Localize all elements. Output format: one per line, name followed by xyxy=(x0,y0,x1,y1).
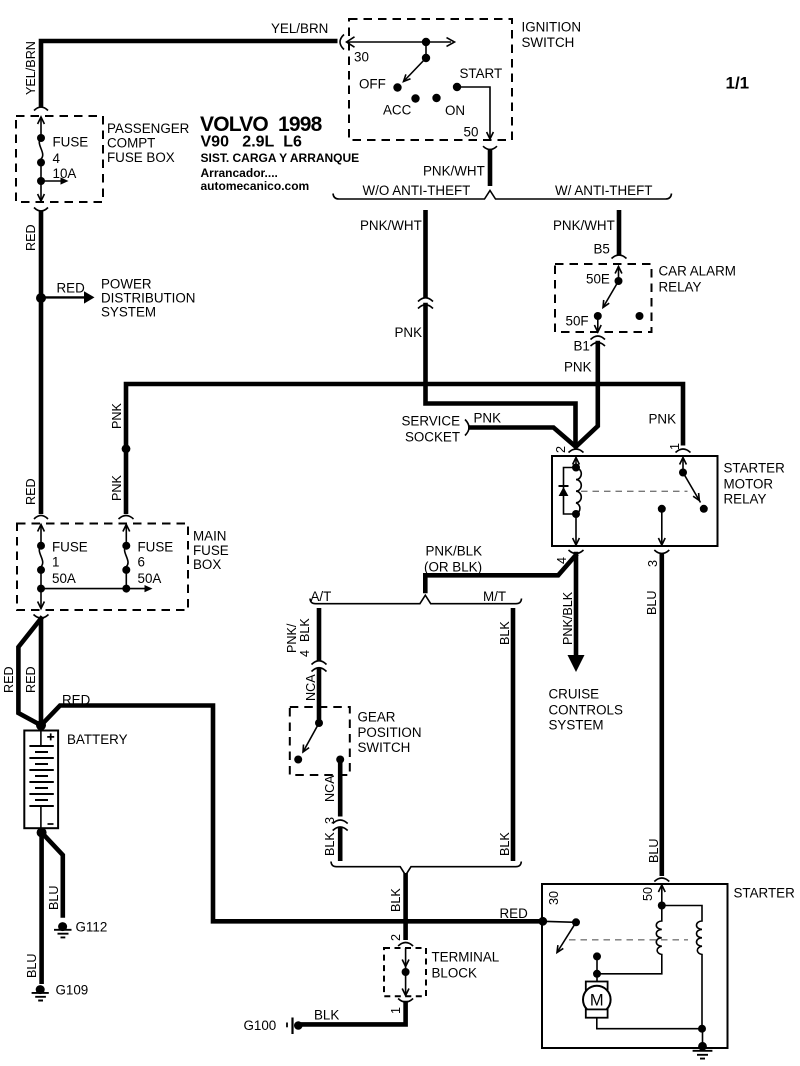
fuse 6 lower junction xyxy=(125,570,127,589)
switch arm pivot dot xyxy=(422,54,430,62)
starter switch arm xyxy=(557,922,576,952)
ground junction dot on box edge xyxy=(698,1042,707,1051)
wire RED straight to battery positive xyxy=(39,619,44,726)
svg-text:4: 4 xyxy=(298,650,312,657)
hold-in coil L2 xyxy=(662,906,702,1029)
svg-text:SOCKET: SOCKET xyxy=(405,430,460,445)
main fuse box xyxy=(17,524,188,611)
svg-text:PNK/WHT: PNK/WHT xyxy=(423,164,485,179)
svg-text:4: 4 xyxy=(53,151,61,166)
svg-text:ACC: ACC xyxy=(383,103,412,118)
ground G112 xyxy=(54,922,72,937)
fuse 4 entry arrow xyxy=(40,117,42,138)
splice dot on PNK bus xyxy=(122,444,131,453)
relay contact arm xyxy=(683,473,701,503)
svg-text:STARTER: STARTER xyxy=(724,461,786,476)
svg-text:SYSTEM: SYSTEM xyxy=(549,718,604,733)
svg-text:PNK: PNK xyxy=(110,403,124,429)
pull-in coil L1 xyxy=(597,906,662,974)
svg-text:RED: RED xyxy=(24,666,38,693)
node junction on terminal 30 line xyxy=(422,38,430,46)
junction dot 50 xyxy=(658,902,666,910)
svg-text:10A: 10A xyxy=(53,166,77,181)
battery xyxy=(24,731,58,833)
inline connector break on left branch xyxy=(418,298,433,309)
motor return wire xyxy=(597,1018,702,1029)
connector into ignition switch terminal 30 xyxy=(340,35,455,50)
svg-text:W/O ANTI-THEFT: W/O ANTI-THEFT xyxy=(363,183,471,198)
svg-text:2: 2 xyxy=(389,934,403,941)
fuse F4 xyxy=(37,134,45,142)
wire to starter ground xyxy=(701,1029,704,1048)
contact 50E dot xyxy=(615,277,623,285)
svg-text:CONTROLS: CONTROLS xyxy=(549,703,623,718)
svg-text:Arrancador....: Arrancador.... xyxy=(201,166,278,180)
wire BLK down to terminal block xyxy=(403,873,408,940)
svg-text:3: 3 xyxy=(323,817,337,824)
connector below passenger fuse box xyxy=(34,208,48,212)
connector starter 50 xyxy=(654,878,669,882)
connector B1 xyxy=(591,336,606,346)
diode D1 xyxy=(559,485,569,487)
svg-text:CAR ALARM: CAR ALARM xyxy=(659,264,736,279)
connector into main fuse box right xyxy=(119,516,134,520)
svg-text:RED: RED xyxy=(57,281,86,296)
return junction dot xyxy=(698,1025,706,1033)
bus arrow inside main fuse box xyxy=(41,588,145,590)
svg-text:PNK: PNK xyxy=(564,360,592,375)
svg-text:YEL/BRN: YEL/BRN xyxy=(271,21,328,36)
contact 50F dot xyxy=(594,312,602,320)
svg-text:NCA: NCA xyxy=(323,775,337,802)
svg-text:SIST. CARGA Y ARRANQUE: SIST. CARGA Y ARRANQUE xyxy=(201,151,360,165)
svg-text:W/ ANTI-THEFT: W/ ANTI-THEFT xyxy=(555,183,652,198)
svg-text:G112: G112 xyxy=(76,920,108,935)
fuse box exit arrow xyxy=(40,181,42,201)
svg-text:COMPT: COMPT xyxy=(107,136,155,151)
svg-text:PNK/BLK: PNK/BLK xyxy=(426,544,483,559)
car alarm relay box xyxy=(555,264,652,332)
connector terminal block pin 2 xyxy=(398,943,413,947)
svg-text:(OR BLK): (OR BLK) xyxy=(424,560,482,575)
contact to motor link xyxy=(596,956,598,981)
svg-text:50E: 50E xyxy=(586,272,610,287)
relay pin 4 exit arrow xyxy=(575,514,577,545)
svg-text:30: 30 xyxy=(354,50,369,65)
svg-text:FUSE: FUSE xyxy=(52,540,88,555)
relay arm 50E to 50F xyxy=(603,281,619,308)
svg-text:3: 3 xyxy=(646,560,660,567)
terminal 50E arrow xyxy=(618,266,620,281)
gear switch pivot dot xyxy=(315,719,323,727)
svg-text:PNK: PNK xyxy=(649,412,677,427)
starter motor relay box xyxy=(552,456,718,546)
svg-text:PNK/WHT: PNK/WHT xyxy=(360,218,422,233)
gear switch contact dot right xyxy=(336,756,344,764)
svg-text:FUSE: FUSE xyxy=(193,543,229,558)
splice node to power distribution xyxy=(36,293,46,303)
svg-text:PNK/BLK: PNK/BLK xyxy=(561,591,575,645)
wire RED double run to battery positive xyxy=(18,619,41,726)
wire BLU to G109 xyxy=(39,833,44,985)
contact ON xyxy=(432,94,440,102)
svg-text:RED: RED xyxy=(500,906,529,921)
fuse F6 xyxy=(122,542,130,550)
fuse 1 lower junction xyxy=(40,570,42,589)
svg-text:ON: ON xyxy=(445,103,465,118)
wire A/T into gear switch xyxy=(317,668,322,722)
svg-text:2: 2 xyxy=(554,446,568,453)
connector relay pin 2 xyxy=(569,449,584,453)
svg-text:RELAY: RELAY xyxy=(724,492,767,507)
relay coil xyxy=(576,468,581,514)
diode bracket across coil xyxy=(564,468,577,515)
connector below ignition terminal 50 xyxy=(483,146,497,149)
svg-text:PNK: PNK xyxy=(395,325,423,340)
svg-text:M: M xyxy=(590,992,604,1010)
connector terminal block pin 1 xyxy=(398,999,413,1003)
ignition switch box xyxy=(349,19,512,140)
svg-text:BLU: BLU xyxy=(645,591,659,616)
terminal block box xyxy=(384,948,426,996)
spare contact dot xyxy=(636,312,644,320)
svg-text:BLK: BLK xyxy=(298,618,312,642)
svg-text:RELAY: RELAY xyxy=(659,280,702,295)
inline connector A/T branch xyxy=(312,661,327,672)
connector service socket xyxy=(465,420,469,436)
terminal B1 exit arrow xyxy=(597,316,599,331)
cruise controls arrow head xyxy=(568,655,585,672)
svg-text:1/1: 1/1 xyxy=(726,74,750,93)
svg-text:BLK: BLK xyxy=(498,832,512,856)
svg-text:MOTOR: MOTOR xyxy=(724,477,774,492)
wire START to terminal 50 xyxy=(457,87,490,138)
svg-text:1: 1 xyxy=(668,443,682,450)
svg-text:RED: RED xyxy=(62,693,91,708)
fuse F1 xyxy=(37,542,45,550)
svg-text:BATTERY: BATTERY xyxy=(67,732,128,747)
starter box xyxy=(542,884,728,1048)
wire from gear switch down xyxy=(338,761,343,817)
ground starter xyxy=(693,1048,713,1059)
contact ACC xyxy=(411,94,419,102)
svg-text:RED: RED xyxy=(24,478,38,505)
svg-text:BLU: BLU xyxy=(25,954,39,979)
svg-text:PNK/WHT: PNK/WHT xyxy=(553,218,615,233)
relay coil bottom dot xyxy=(572,510,580,518)
branch arrow right xyxy=(41,180,61,182)
svg-text:6: 6 xyxy=(138,555,145,570)
relay pin 2 entry arrow xyxy=(575,458,577,468)
wire B1 PNK down to relay pin 2 xyxy=(577,343,598,446)
battery positive junction xyxy=(36,720,46,730)
wire RED battery to starter 30 xyxy=(41,706,540,922)
relay coil top dot xyxy=(572,464,580,472)
svg-text:TERMINAL: TERMINAL xyxy=(432,950,500,965)
wire RED from passenger fuse box to main fuse box xyxy=(39,212,44,515)
wire stub to switch arm pivot xyxy=(425,42,427,58)
svg-text:RED: RED xyxy=(2,666,16,693)
svg-text:B5: B5 xyxy=(594,242,610,257)
svg-text:BLK: BLK xyxy=(498,621,512,645)
wire BLU relay pin 3 to starter 50 xyxy=(659,554,664,876)
starter switch line from 30 xyxy=(543,921,576,922)
svg-text:OFF: OFF xyxy=(359,77,386,92)
starter contact dot upper xyxy=(593,952,601,960)
svg-text:SYSTEM: SYSTEM xyxy=(101,305,156,320)
wire M/T branch xyxy=(511,608,516,861)
fuse 6 entry arrow xyxy=(125,525,127,546)
svg-text:SERVICE: SERVICE xyxy=(401,414,460,429)
svg-text:SWITCH: SWITCH xyxy=(358,740,411,755)
svg-text:1: 1 xyxy=(389,1007,403,1014)
starter actuation dashed line xyxy=(569,939,688,941)
svg-text:BOX: BOX xyxy=(193,557,221,572)
svg-text:YEL/BRN: YEL/BRN xyxy=(24,41,38,95)
connector B5 into car alarm relay xyxy=(612,255,627,259)
connector relay pin 1 xyxy=(676,449,691,453)
contact START xyxy=(453,83,461,91)
svg-text:FUSE: FUSE xyxy=(53,135,89,150)
relay pin 1 entry arrow xyxy=(682,458,684,473)
junction dot 30 at box edge xyxy=(538,917,547,926)
svg-text:50A: 50A xyxy=(138,571,162,586)
svg-text:50A: 50A xyxy=(52,571,76,586)
wire pin 4 branch to A/T M/T brace xyxy=(425,556,575,592)
connector below main fuse box xyxy=(34,615,49,619)
wire BLK from terminal block to G100 xyxy=(303,1003,406,1024)
wire service socket to relay pin 2 xyxy=(471,428,576,447)
main fuse box exit arrow xyxy=(40,589,42,608)
svg-text:PNK: PNK xyxy=(110,475,124,501)
svg-text:RED: RED xyxy=(24,224,38,251)
gear switch contact dot left xyxy=(294,756,302,764)
svg-text:CRUISE: CRUISE xyxy=(549,687,600,702)
connector relay pin 3 xyxy=(654,550,669,554)
svg-text:FUSE: FUSE xyxy=(138,540,174,555)
brace splitting W/O and W/ anti-theft xyxy=(333,191,672,200)
connector into main fuse box left xyxy=(34,516,48,520)
terminal block dot xyxy=(402,968,410,976)
wire right branch PNK/WHT xyxy=(617,210,622,255)
svg-text:A/T: A/T xyxy=(311,589,332,604)
svg-text:PNK: PNK xyxy=(474,411,502,426)
fuse 4 output junction xyxy=(40,163,42,182)
fuse 1 entry arrow xyxy=(40,525,42,546)
svg-text:B1: B1 xyxy=(574,339,590,354)
wire PNK/WHT from ignition 50 xyxy=(488,149,493,186)
svg-text:BLU: BLU xyxy=(47,886,61,911)
wire BLU to G112 xyxy=(42,833,63,916)
brace joining A/T and M/T to BLK xyxy=(331,862,521,876)
ground G109 xyxy=(32,985,49,1000)
svg-text:SWITCH: SWITCH xyxy=(522,35,575,50)
svg-text:V90 2.9L L6: V90 2.9L L6 xyxy=(201,134,302,151)
svg-text:FUSE BOX: FUSE BOX xyxy=(107,150,175,165)
svg-text:automecanico.com: automecanico.com xyxy=(201,179,310,193)
svg-text:M/T: M/T xyxy=(483,589,506,604)
svg-text:50F: 50F xyxy=(566,314,589,329)
svg-text:BLK: BLK xyxy=(389,888,403,912)
wire left branch PNK/WHT xyxy=(423,210,428,298)
svg-text:POSITION: POSITION xyxy=(358,725,422,740)
relay contact dot pin 3 xyxy=(658,505,666,513)
svg-text:POWER: POWER xyxy=(101,277,152,292)
svg-text:PASSENGER: PASSENGER xyxy=(107,121,190,136)
svg-text:50: 50 xyxy=(464,125,479,140)
svg-text:BLOCK: BLOCK xyxy=(432,966,477,981)
svg-text:GEAR: GEAR xyxy=(358,710,396,725)
terminal block internal path xyxy=(405,948,407,995)
relay contact pivot dot xyxy=(679,469,687,477)
svg-text:G109: G109 xyxy=(56,983,89,998)
svg-text:NCA: NCA xyxy=(304,674,318,701)
wire left branch down and over to relay pin 2 xyxy=(426,305,576,445)
motor feed junction dot xyxy=(593,970,601,978)
connector relay pin 4 xyxy=(569,550,584,554)
svg-text:BLK: BLK xyxy=(314,1008,339,1023)
svg-text:G100: G100 xyxy=(244,1018,277,1033)
gear switch arm xyxy=(303,723,319,752)
relay pin 3 exit arrow xyxy=(661,509,663,545)
battery negative junction xyxy=(37,828,47,838)
wire A/T branch upper xyxy=(317,608,322,661)
starter switch pivot dot xyxy=(572,918,580,926)
svg-text:MAIN: MAIN xyxy=(193,529,226,544)
ground G100 xyxy=(287,1018,303,1035)
inline connector lower A/T xyxy=(333,820,348,831)
connector into passenger fuse box xyxy=(34,107,48,111)
wire PNK main bus from main fuse box to relay pin 1 xyxy=(126,384,683,514)
motor M1 xyxy=(583,982,611,1018)
svg-text:50: 50 xyxy=(641,887,655,901)
passenger compt fuse box xyxy=(16,116,103,202)
svg-text:30: 30 xyxy=(547,891,561,905)
contact OFF xyxy=(393,83,401,91)
wire BLK to bottom brace xyxy=(338,827,343,861)
arrow to power distribution system xyxy=(43,296,84,298)
svg-text:START: START xyxy=(460,66,503,81)
starter 50 entry arrow xyxy=(661,885,663,906)
svg-text:DISTRIBUTION: DISTRIBUTION xyxy=(101,291,195,306)
svg-text:STARTER: STARTER xyxy=(734,886,796,901)
svg-text:1: 1 xyxy=(52,555,59,570)
wire PNK/BLK from pin 4 down to cruise arrow xyxy=(574,554,579,655)
svg-text:PNK/: PNK/ xyxy=(285,623,299,653)
wire YEL/BRN from left edge to ignition switch xyxy=(41,41,338,107)
relay contact dot lower right xyxy=(700,505,708,513)
switch arm pointing to OFF xyxy=(404,58,427,82)
brace splitting A/T and M/T xyxy=(310,595,522,604)
svg-text:IGNITION: IGNITION xyxy=(522,20,582,35)
svg-text:BLU: BLU xyxy=(647,839,661,864)
relay actuation dashed line xyxy=(581,490,688,492)
svg-text:BLK: BLK xyxy=(323,832,337,856)
gear position switch box xyxy=(290,707,350,775)
